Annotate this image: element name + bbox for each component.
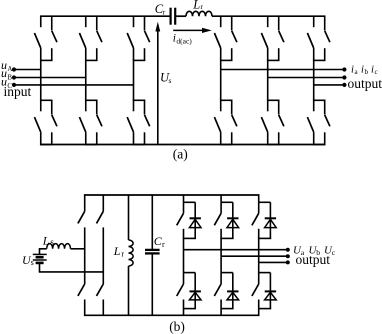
svg-text:r: r xyxy=(162,240,165,249)
svg-text:output: output xyxy=(348,76,382,91)
svg-text:a: a xyxy=(355,68,359,76)
svg-text:b: b xyxy=(365,68,369,76)
svg-text:L: L xyxy=(113,244,121,258)
svg-text:c: c xyxy=(332,248,336,257)
svg-text:r: r xyxy=(121,250,124,259)
svg-text:L: L xyxy=(192,0,200,12)
svg-text:r: r xyxy=(200,2,203,11)
svg-text:input: input xyxy=(4,84,32,99)
svg-text:d(ac): d(ac) xyxy=(176,36,192,45)
svg-text:c: c xyxy=(375,68,378,76)
svg-text:A: A xyxy=(7,65,12,73)
svg-text:B: B xyxy=(7,74,12,82)
svg-text:(b): (b) xyxy=(169,319,185,334)
svg-text:s: s xyxy=(31,258,34,267)
svg-text:s: s xyxy=(169,76,172,85)
svg-text:(a): (a) xyxy=(173,147,188,162)
svg-text:output: output xyxy=(296,252,331,267)
svg-text:L: L xyxy=(42,233,50,247)
svg-text:s: s xyxy=(50,238,54,248)
svg-text:r: r xyxy=(163,8,166,17)
